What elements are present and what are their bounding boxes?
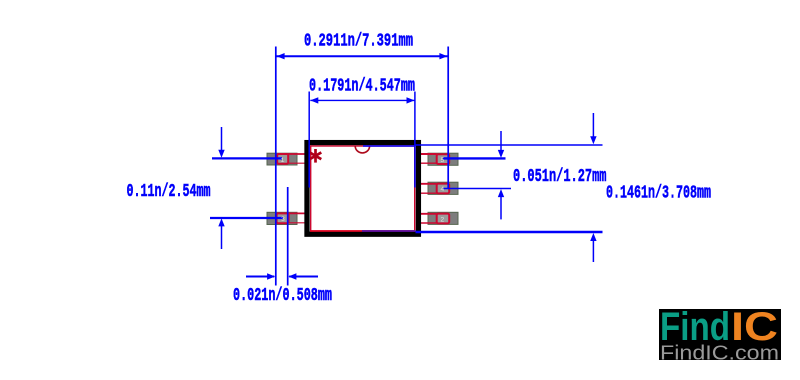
svg-text:4: 4 <box>440 186 444 193</box>
svg-text:0.021n/0.508mm: 0.021n/0.508mm <box>233 285 332 306</box>
svg-text:FindIC.com: FindIC.com <box>660 342 779 365</box>
svg-text:3: 3 <box>281 216 285 223</box>
svg-text:1: 1 <box>281 157 285 164</box>
svg-text:0.11n/2.54mm: 0.11n/2.54mm <box>127 181 211 202</box>
svg-text:0.2911n/7.391mm: 0.2911n/7.391mm <box>304 30 413 51</box>
svg-text:0.1791n/4.547mm: 0.1791n/4.547mm <box>309 75 415 96</box>
svg-text:5: 5 <box>440 157 444 164</box>
svg-text:0.051n/1.27mm: 0.051n/1.27mm <box>513 166 607 187</box>
svg-text:2: 2 <box>440 216 444 223</box>
svg-text:0.1461n/3.708mm: 0.1461n/3.708mm <box>606 182 711 203</box>
